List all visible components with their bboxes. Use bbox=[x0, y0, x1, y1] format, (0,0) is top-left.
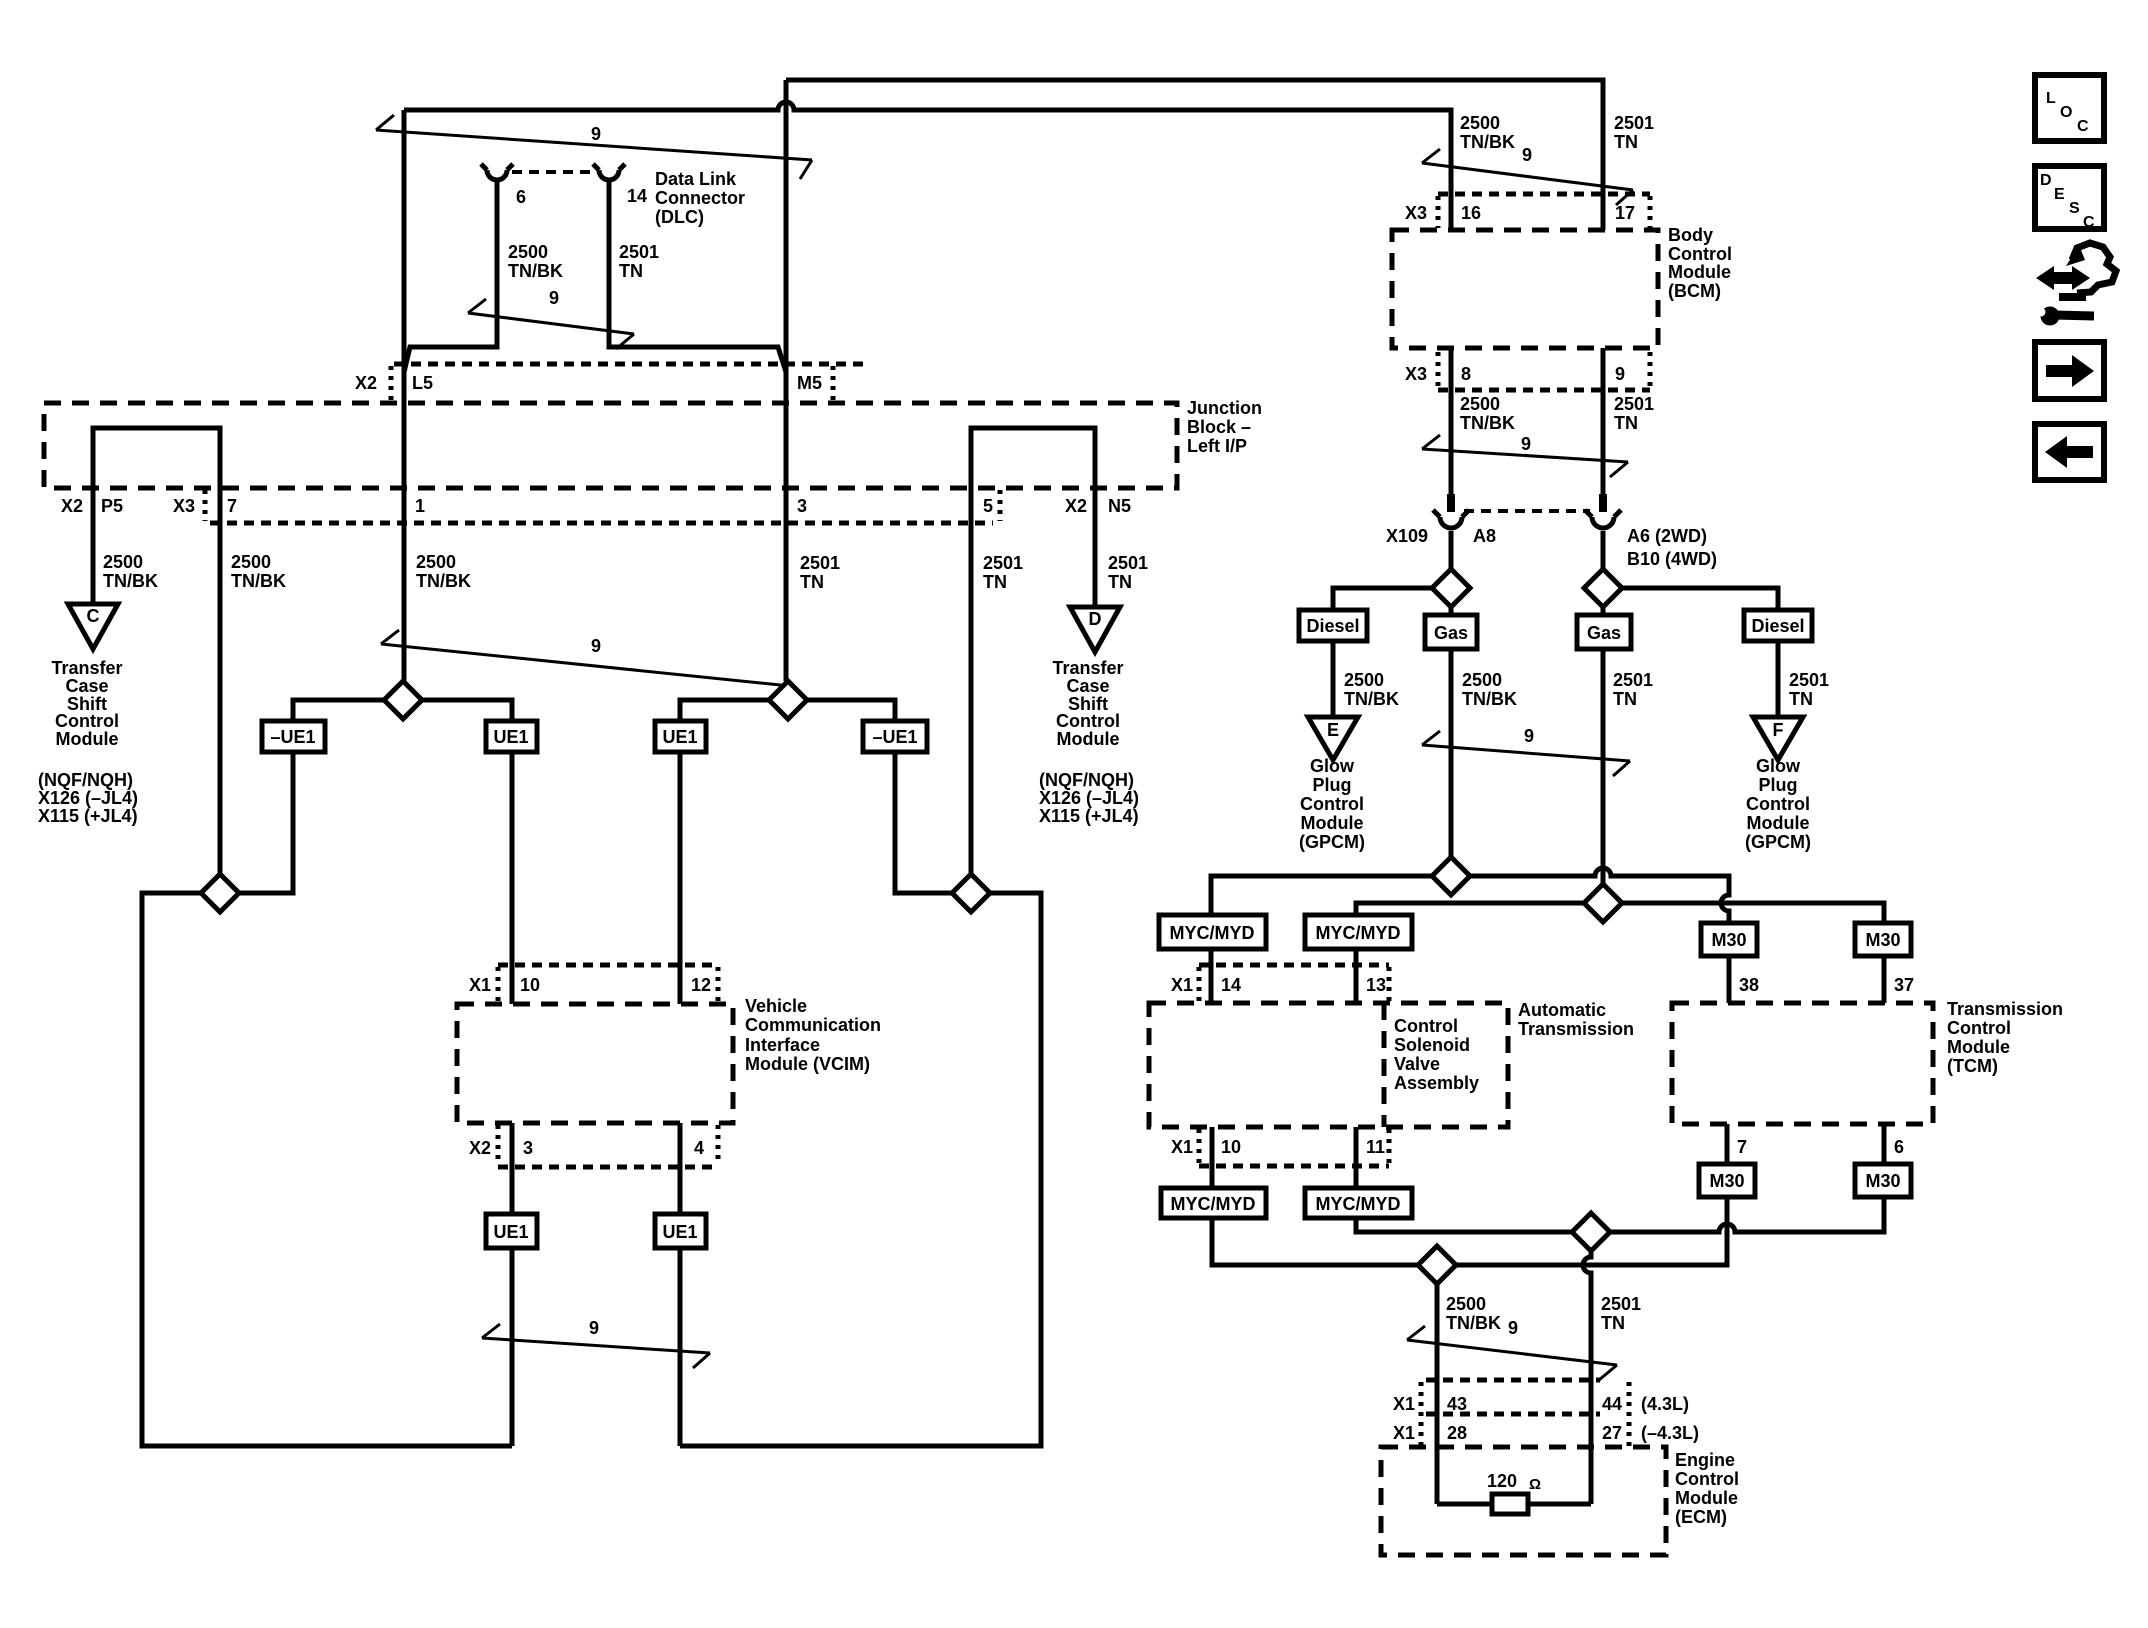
label Transfer Case Shift Control Module left bbox=[51, 658, 122, 749]
svg-text:6: 6 bbox=[1894, 1137, 1904, 1157]
wire Gas left down bbox=[1449, 649, 1454, 857]
svg-text:7: 7 bbox=[1737, 1137, 1747, 1157]
svg-text:C: C bbox=[87, 606, 100, 626]
svg-text:TN/BK: TN/BK bbox=[416, 571, 471, 591]
label NQF/NQH right bbox=[1039, 770, 1139, 826]
off-page connector D bbox=[1070, 607, 1120, 652]
wire MYC/MYD to trans pin 13 bbox=[1354, 949, 1359, 1003]
label Control Solenoid Valve Assembly bbox=[1394, 1016, 1479, 1093]
wire L5 vertical bbox=[402, 110, 407, 681]
icon wrench-arrows bbox=[2036, 243, 2116, 326]
wire TCM pin 6 to M30 bbox=[1882, 1124, 1887, 1164]
svg-text:Transfer: Transfer bbox=[51, 658, 122, 678]
wire splice to Gas right bbox=[1601, 607, 1606, 615]
svg-text:(NQF/NQH): (NQF/NQH) bbox=[1039, 770, 1134, 790]
svg-text:–UE1: –UE1 bbox=[872, 727, 917, 747]
svg-text:Control: Control bbox=[1947, 1018, 2011, 1038]
label Data Link Connector (DLC) bbox=[655, 169, 745, 227]
label 2500 TN/BK diesel left bbox=[1344, 670, 1399, 709]
wire splice to Gas left bbox=[1449, 607, 1454, 615]
svg-text:X1: X1 bbox=[1393, 1394, 1415, 1414]
svg-text:X126 (–JL4): X126 (–JL4) bbox=[1039, 788, 1139, 808]
svg-text:14: 14 bbox=[627, 186, 647, 206]
svg-text:2501: 2501 bbox=[1789, 670, 1829, 690]
junction block bus bar left bbox=[93, 428, 220, 874]
wire -UE1 right down to splice bbox=[895, 752, 952, 893]
svg-text:Control: Control bbox=[1056, 711, 1120, 731]
svg-text:Ω: Ω bbox=[1529, 1476, 1541, 1493]
connector UE1 upper left bbox=[486, 721, 537, 752]
transmission bottom pin row X1 bbox=[1171, 1129, 1389, 1166]
svg-text:Interface: Interface bbox=[745, 1035, 820, 1055]
svg-text:2501: 2501 bbox=[983, 553, 1023, 573]
svg-text:9: 9 bbox=[1521, 434, 1531, 454]
wire splice to right loop bbox=[680, 893, 1041, 1446]
svg-text:B10 (4WD): B10 (4WD) bbox=[1627, 549, 1717, 569]
svg-text:(GPCM): (GPCM) bbox=[1299, 832, 1365, 852]
svg-text:Module: Module bbox=[1057, 729, 1120, 749]
svg-text:Module: Module bbox=[1947, 1037, 2010, 1057]
svg-text:C: C bbox=[2077, 118, 2089, 135]
connector DLC pin 6 terminal bbox=[481, 164, 513, 180]
wire row2 right to M30 bbox=[1622, 903, 1884, 923]
svg-text:2500: 2500 bbox=[231, 552, 271, 572]
wire splice to left loop bbox=[142, 893, 512, 1446]
svg-text:2501: 2501 bbox=[1613, 670, 1653, 690]
splice diamond 2500 row1 bbox=[1432, 857, 1470, 895]
label Glow Plug Control Module (GPCM) left bbox=[1299, 756, 1365, 852]
svg-text:Connector: Connector bbox=[655, 188, 745, 208]
label 2500 TN/BK above BCM bbox=[1460, 113, 1515, 152]
label DLC pins bbox=[516, 186, 647, 207]
svg-text:Control: Control bbox=[1746, 794, 1810, 814]
svg-text:2500: 2500 bbox=[1446, 1294, 1486, 1314]
svg-text:M30: M30 bbox=[1711, 930, 1746, 950]
svg-text:Communication: Communication bbox=[745, 1015, 881, 1035]
wire 2501 splice down to ECM with hop bbox=[1583, 1251, 1591, 1504]
svg-text:Case: Case bbox=[1066, 676, 1109, 696]
module VCIM box bbox=[457, 1004, 733, 1123]
svg-text:TN/BK: TN/BK bbox=[1344, 689, 1399, 709]
connector MYC/MYD top left bbox=[1159, 915, 1266, 949]
label 2500 TN/BK pin1 bbox=[416, 552, 471, 591]
svg-text:Control: Control bbox=[1394, 1016, 1458, 1036]
svg-text:X109: X109 bbox=[1386, 526, 1428, 546]
svg-text:Module: Module bbox=[1668, 262, 1731, 282]
twisted-pair arrow 9 above ECM bbox=[1407, 1318, 1617, 1380]
splice diamond on M5 wire bbox=[769, 681, 807, 719]
VCIM top pin row X1 bbox=[469, 965, 718, 1002]
svg-text:X2: X2 bbox=[469, 1138, 491, 1158]
svg-text:Glow: Glow bbox=[1310, 756, 1355, 776]
label 2500 TN/BK P5 bbox=[103, 552, 158, 591]
twisted-pair arrow 9 gas pair bbox=[1422, 726, 1630, 776]
svg-text:7: 7 bbox=[227, 496, 237, 516]
svg-text:Left I/P: Left I/P bbox=[1187, 436, 1247, 456]
icon LOC button bbox=[2035, 75, 2104, 141]
junction block bus bar right bbox=[971, 428, 1095, 874]
svg-text:Diesel: Diesel bbox=[1306, 616, 1359, 636]
X109 internal dashed link bbox=[1464, 509, 1590, 513]
BCM bottom pin row X3 bbox=[1405, 352, 1650, 390]
wire diamond to UE1 right bbox=[680, 700, 769, 721]
transmission top pin row X1 bbox=[1171, 965, 1389, 1001]
svg-text:Junction: Junction bbox=[1187, 398, 1262, 418]
label Body Control Module (BCM) bbox=[1668, 225, 1732, 301]
svg-text:X115 (+JL4): X115 (+JL4) bbox=[1039, 806, 1139, 826]
label 2500 TN/BK gas left bbox=[1462, 670, 1517, 709]
svg-text:Engine: Engine bbox=[1675, 1450, 1735, 1470]
svg-text:9: 9 bbox=[591, 124, 601, 144]
twisted-pair arrow 9 below BCM bbox=[1422, 434, 1628, 477]
svg-text:28: 28 bbox=[1447, 1423, 1467, 1443]
svg-text:TN: TN bbox=[1108, 572, 1132, 592]
wire UE1 lower right to loop bbox=[678, 1248, 683, 1446]
label Engine Control Module (ECM) bbox=[1675, 1450, 1739, 1527]
wire BCM pin 9 down bbox=[1601, 348, 1606, 494]
connector UE1 lower left bbox=[486, 1214, 537, 1248]
svg-text:Module: Module bbox=[1301, 813, 1364, 833]
module BCM box bbox=[1392, 230, 1658, 348]
svg-text:X2: X2 bbox=[355, 373, 377, 393]
label Vehicle Communication Interface Module (VCIM) bbox=[745, 996, 881, 1074]
wire splice to Diesel right bbox=[1622, 588, 1778, 610]
label 2500 TN/BK pin7 bbox=[231, 552, 286, 591]
svg-text:9: 9 bbox=[1522, 145, 1532, 165]
svg-text:(–4.3L): (–4.3L) bbox=[1641, 1423, 1699, 1443]
wire row3 MYC/MYD to M30 with hop bbox=[1356, 1197, 1884, 1232]
connector MYC/MYD top right bbox=[1305, 915, 1412, 949]
DLC internal dashed link bbox=[512, 170, 594, 174]
svg-text:37: 37 bbox=[1894, 975, 1914, 995]
svg-text:Plug: Plug bbox=[1759, 775, 1798, 795]
twisted-pair arrow 9 above BCM bbox=[1422, 145, 1633, 205]
wire TCM pin 7 to M30 bbox=[1725, 1124, 1730, 1164]
label Automatic Transmission bbox=[1518, 1000, 1634, 1039]
svg-text:(TCM): (TCM) bbox=[1947, 1056, 1998, 1076]
svg-text:2500: 2500 bbox=[416, 552, 456, 572]
svg-text:Control: Control bbox=[55, 711, 119, 731]
module Automatic Transmission box bbox=[1149, 1003, 1508, 1127]
svg-text:TN: TN bbox=[1613, 689, 1637, 709]
svg-text:Automatic: Automatic bbox=[1518, 1000, 1606, 1020]
svg-text:TN/BK: TN/BK bbox=[1460, 413, 1515, 433]
connector M30 top left bbox=[1701, 923, 1757, 956]
svg-text:3: 3 bbox=[523, 1138, 533, 1158]
svg-text:MYC/MYD: MYC/MYD bbox=[1316, 923, 1401, 943]
svg-text:12: 12 bbox=[691, 975, 711, 995]
junction block top pin row bbox=[355, 364, 870, 401]
svg-text:2501: 2501 bbox=[800, 553, 840, 573]
svg-text:X1: X1 bbox=[1393, 1423, 1415, 1443]
connector M30 top right bbox=[1855, 923, 1911, 956]
off-page connector F bbox=[1753, 717, 1803, 760]
svg-text:X3: X3 bbox=[173, 496, 195, 516]
svg-text:10: 10 bbox=[520, 975, 540, 995]
svg-text:X3: X3 bbox=[1405, 364, 1427, 384]
svg-text:TN: TN bbox=[1601, 1313, 1625, 1333]
splice diamond on L5 wire bbox=[384, 681, 422, 719]
wire trans pin 11 to MYC/MYD bbox=[1354, 1127, 1359, 1188]
svg-text:UE1: UE1 bbox=[493, 1222, 528, 1242]
svg-text:N5: N5 bbox=[1108, 496, 1131, 516]
label 2501 TN N5 bbox=[1108, 553, 1148, 592]
svg-text:(DLC): (DLC) bbox=[655, 207, 704, 227]
svg-text:2500: 2500 bbox=[1460, 394, 1500, 414]
connector -UE1 upper right bbox=[863, 721, 927, 752]
svg-text:MYC/MYD: MYC/MYD bbox=[1171, 1194, 1256, 1214]
connector UE1 upper right bbox=[655, 721, 706, 752]
wire Gas right down bbox=[1601, 649, 1606, 884]
svg-text:X3: X3 bbox=[1405, 203, 1427, 223]
label 2501 TN diesel right bbox=[1789, 670, 1829, 709]
connector Diesel right bbox=[1744, 610, 1812, 641]
splice diamond 2500 row4 bbox=[1418, 1246, 1456, 1284]
connector DLC pin 14 terminal bbox=[593, 164, 625, 180]
svg-text:Control: Control bbox=[1668, 244, 1732, 264]
svg-text:TN: TN bbox=[619, 261, 643, 281]
svg-text:2500: 2500 bbox=[103, 552, 143, 572]
label 2501 TN above BCM bbox=[1614, 113, 1654, 152]
ECM pin row 28 27 bbox=[1393, 1423, 1699, 1443]
module ECM box bbox=[1381, 1447, 1666, 1555]
svg-text:Gas: Gas bbox=[1434, 623, 1468, 643]
svg-text:UE1: UE1 bbox=[662, 1222, 697, 1242]
wire M30 to TCM pin 37 bbox=[1882, 956, 1887, 1003]
svg-text:Module (VCIM): Module (VCIM) bbox=[745, 1054, 870, 1074]
svg-text:Transfer: Transfer bbox=[1052, 658, 1123, 678]
svg-text:Block –: Block – bbox=[1187, 417, 1251, 437]
svg-text:D: D bbox=[2040, 172, 2052, 189]
connector Diesel left bbox=[1299, 610, 1367, 641]
svg-text:M30: M30 bbox=[1865, 930, 1900, 950]
label Glow Plug Control Module (GPCM) right bbox=[1745, 756, 1811, 852]
svg-text:X2: X2 bbox=[61, 496, 83, 516]
connector X109 pin A6/B10 bbox=[1585, 494, 1621, 528]
splice diamond lower left bbox=[201, 874, 239, 912]
svg-text:9: 9 bbox=[1508, 1318, 1518, 1338]
wire 2500 TN/BK top run L5 to BCM pin 16 bbox=[404, 102, 1451, 230]
svg-text:Solenoid: Solenoid bbox=[1394, 1035, 1470, 1055]
svg-text:9: 9 bbox=[591, 636, 601, 656]
wire -UE1 left down to splice bbox=[239, 752, 293, 893]
label 2500 TN/BK below BCM bbox=[1460, 394, 1515, 433]
label NQF/NQH left bbox=[38, 770, 138, 826]
svg-text:(NQF/NQH): (NQF/NQH) bbox=[38, 770, 133, 790]
control solenoid valve assembly inner edge bbox=[1382, 1003, 1387, 1127]
junction block bottom pin row bbox=[61, 490, 1131, 523]
wire MYC/MYD to trans pin 14 bbox=[1209, 949, 1214, 1003]
svg-text:(4.3L): (4.3L) bbox=[1641, 1394, 1689, 1414]
wire A8 to splice bbox=[1449, 531, 1454, 569]
svg-text:A6 (2WD): A6 (2WD) bbox=[1627, 526, 1707, 546]
svg-text:X1: X1 bbox=[1171, 1137, 1193, 1157]
svg-text:TN: TN bbox=[1614, 132, 1638, 152]
svg-text:Valve: Valve bbox=[1394, 1054, 1440, 1074]
svg-text:E: E bbox=[2054, 186, 2065, 203]
wire Diesel right to F bbox=[1776, 641, 1781, 717]
splice diamond 2501 row3 bbox=[1572, 1213, 1610, 1251]
svg-text:TN: TN bbox=[1614, 413, 1638, 433]
junction block box bbox=[44, 403, 1177, 488]
wire splice to Diesel left bbox=[1333, 588, 1432, 610]
label 2500 TN/BK above ECM bbox=[1446, 1294, 1501, 1333]
wire diamond to UE1 left bbox=[422, 700, 512, 721]
svg-text:2501: 2501 bbox=[619, 242, 659, 262]
twisted-pair arrow 9 bottom left bbox=[482, 1318, 710, 1368]
svg-text:Case: Case bbox=[65, 676, 108, 696]
svg-text:44: 44 bbox=[1602, 1394, 1622, 1414]
icon DESC button bbox=[2035, 166, 2104, 231]
wire VCIM pin 4 to UE1 lower right bbox=[678, 1123, 683, 1214]
connector -UE1 upper left bbox=[262, 721, 325, 752]
svg-text:9: 9 bbox=[1524, 726, 1534, 746]
svg-text:P5: P5 bbox=[101, 496, 123, 516]
svg-text:Control: Control bbox=[1300, 794, 1364, 814]
svg-text:38: 38 bbox=[1739, 975, 1759, 995]
label 2501 TN gas right bbox=[1613, 670, 1653, 709]
svg-text:43: 43 bbox=[1447, 1394, 1467, 1414]
svg-text:S: S bbox=[2069, 200, 2080, 217]
wire row1 right to M30 with hops bbox=[1470, 868, 1729, 923]
svg-text:(ECM): (ECM) bbox=[1675, 1507, 1727, 1527]
label 2501 TN above ECM bbox=[1601, 1294, 1641, 1333]
svg-text:TN: TN bbox=[800, 572, 824, 592]
icon back arrow button bbox=[2035, 424, 2104, 480]
svg-text:TN: TN bbox=[983, 572, 1007, 592]
wire M30 to TCM pin 38 bbox=[1727, 956, 1732, 1003]
svg-text:11: 11 bbox=[1366, 1137, 1385, 1157]
svg-text:8: 8 bbox=[1461, 364, 1471, 384]
wire 2500 splice down to ECM bbox=[1435, 1284, 1440, 1504]
svg-text:10: 10 bbox=[1221, 1137, 1241, 1157]
label 2501 TN pin5 bbox=[983, 553, 1023, 592]
svg-text:2501: 2501 bbox=[1601, 1294, 1641, 1314]
svg-text:Gas: Gas bbox=[1587, 623, 1621, 643]
svg-text:13: 13 bbox=[1366, 975, 1386, 995]
svg-text:4: 4 bbox=[694, 1138, 704, 1158]
svg-text:Module: Module bbox=[56, 729, 119, 749]
svg-text:2501: 2501 bbox=[1108, 553, 1148, 573]
svg-text:9: 9 bbox=[549, 288, 559, 308]
connector UE1 lower right bbox=[655, 1214, 706, 1248]
svg-text:UE1: UE1 bbox=[493, 727, 528, 747]
svg-text:E: E bbox=[1327, 720, 1339, 740]
svg-text:2500: 2500 bbox=[1462, 670, 1502, 690]
svg-text:Assembly: Assembly bbox=[1394, 1073, 1479, 1093]
svg-text:1: 1 bbox=[415, 496, 425, 516]
svg-text:Transmission: Transmission bbox=[1947, 999, 2063, 1019]
wire row1 left to MYC/MYD bbox=[1211, 876, 1432, 915]
connector X109 pin A8 bbox=[1433, 494, 1469, 528]
svg-text:Plug: Plug bbox=[1313, 775, 1352, 795]
svg-text:27: 27 bbox=[1602, 1423, 1622, 1443]
wire 2501 TN top run M5 to BCM pin 17 bbox=[786, 80, 1603, 230]
svg-text:16: 16 bbox=[1461, 203, 1481, 223]
wire UE1 upper left to VCIM pin 10 bbox=[510, 752, 515, 1004]
wire VCIM pin 3 to UE1 lower left bbox=[510, 1123, 515, 1214]
svg-text:X1: X1 bbox=[1171, 975, 1193, 995]
svg-text:14: 14 bbox=[1221, 975, 1241, 995]
connector MYC/MYD bottom left bbox=[1161, 1188, 1266, 1218]
off-page connector E bbox=[1308, 717, 1358, 760]
svg-text:(BCM): (BCM) bbox=[1668, 281, 1721, 301]
connector Gas left bbox=[1425, 615, 1477, 649]
module TCM box bbox=[1672, 1003, 1933, 1124]
connector MYC/MYD bottom right bbox=[1305, 1188, 1412, 1218]
svg-text:Data Link: Data Link bbox=[655, 169, 737, 189]
wire DLC pin 14 to M5 bbox=[609, 180, 786, 372]
svg-text:TN/BK: TN/BK bbox=[1460, 132, 1515, 152]
label 2501 TN pin3 bbox=[800, 553, 840, 592]
svg-text:2500: 2500 bbox=[508, 242, 548, 262]
icon forward arrow button bbox=[2035, 342, 2104, 399]
svg-text:17: 17 bbox=[1615, 203, 1635, 223]
svg-text:TN/BK: TN/BK bbox=[103, 571, 158, 591]
label 2501 TN below BCM bbox=[1614, 394, 1654, 433]
label X109 A8 A6 B10 bbox=[1386, 526, 1717, 569]
svg-text:TN/BK: TN/BK bbox=[508, 261, 563, 281]
label Transfer Case Shift Control Module right bbox=[1052, 658, 1123, 749]
svg-text:Vehicle: Vehicle bbox=[745, 996, 807, 1016]
svg-text:2501: 2501 bbox=[1614, 113, 1654, 133]
splice diamond 2501 row2 bbox=[1584, 884, 1622, 922]
VCIM bottom pin row X2 bbox=[469, 1125, 718, 1167]
BCM top pin row X3 bbox=[1405, 194, 1650, 228]
svg-text:M5: M5 bbox=[797, 373, 822, 393]
wire Diesel left to E bbox=[1331, 641, 1336, 717]
svg-text:–UE1: –UE1 bbox=[270, 727, 315, 747]
svg-text:3: 3 bbox=[797, 496, 807, 516]
svg-text:L5: L5 bbox=[412, 373, 433, 393]
svg-text:TN: TN bbox=[1789, 689, 1813, 709]
svg-text:Body: Body bbox=[1668, 225, 1713, 245]
connector M30 bottom right bbox=[1855, 1164, 1911, 1197]
svg-text:TN/BK: TN/BK bbox=[231, 571, 286, 591]
svg-text:MYC/MYD: MYC/MYD bbox=[1170, 923, 1255, 943]
label 2501 TN DLC bbox=[619, 242, 659, 281]
twisted-pair arrow 9 mid-left bbox=[381, 630, 790, 701]
svg-text:Control: Control bbox=[1675, 1469, 1739, 1489]
wire UE1 upper right to VCIM pin 12 bbox=[678, 752, 683, 1004]
off-page connector C bbox=[68, 604, 118, 649]
svg-text:2500: 2500 bbox=[1344, 670, 1384, 690]
wire M5 vertical with hop over 2500 wire bbox=[784, 80, 789, 681]
svg-text:TN/BK: TN/BK bbox=[1462, 689, 1517, 709]
wire BCM pin 8 down bbox=[1449, 348, 1454, 494]
twisted-pair arrow 9 DLC bbox=[468, 288, 634, 349]
svg-text:UE1: UE1 bbox=[662, 727, 697, 747]
svg-text:Module: Module bbox=[1747, 813, 1810, 833]
connector Gas right bbox=[1577, 615, 1631, 649]
svg-text:(GPCM): (GPCM) bbox=[1745, 832, 1811, 852]
svg-text:MYC/MYD: MYC/MYD bbox=[1316, 1194, 1401, 1214]
svg-text:M30: M30 bbox=[1865, 1171, 1900, 1191]
svg-text:A8: A8 bbox=[1473, 526, 1496, 546]
twisted-pair arrow 9 top bbox=[376, 115, 812, 179]
svg-text:Glow: Glow bbox=[1756, 756, 1801, 776]
svg-text:X115 (+JL4): X115 (+JL4) bbox=[38, 806, 138, 826]
splice diamond 2500 below X109 bbox=[1432, 569, 1470, 607]
svg-text:F: F bbox=[1773, 720, 1784, 740]
svg-text:X2: X2 bbox=[1065, 496, 1087, 516]
svg-text:2500: 2500 bbox=[1460, 113, 1500, 133]
svg-text:9: 9 bbox=[1615, 364, 1625, 384]
svg-text:6: 6 bbox=[516, 187, 526, 207]
splice diamond lower right bbox=[952, 874, 990, 912]
connector M30 bottom left bbox=[1699, 1164, 1755, 1197]
svg-text:C: C bbox=[2083, 214, 2095, 231]
